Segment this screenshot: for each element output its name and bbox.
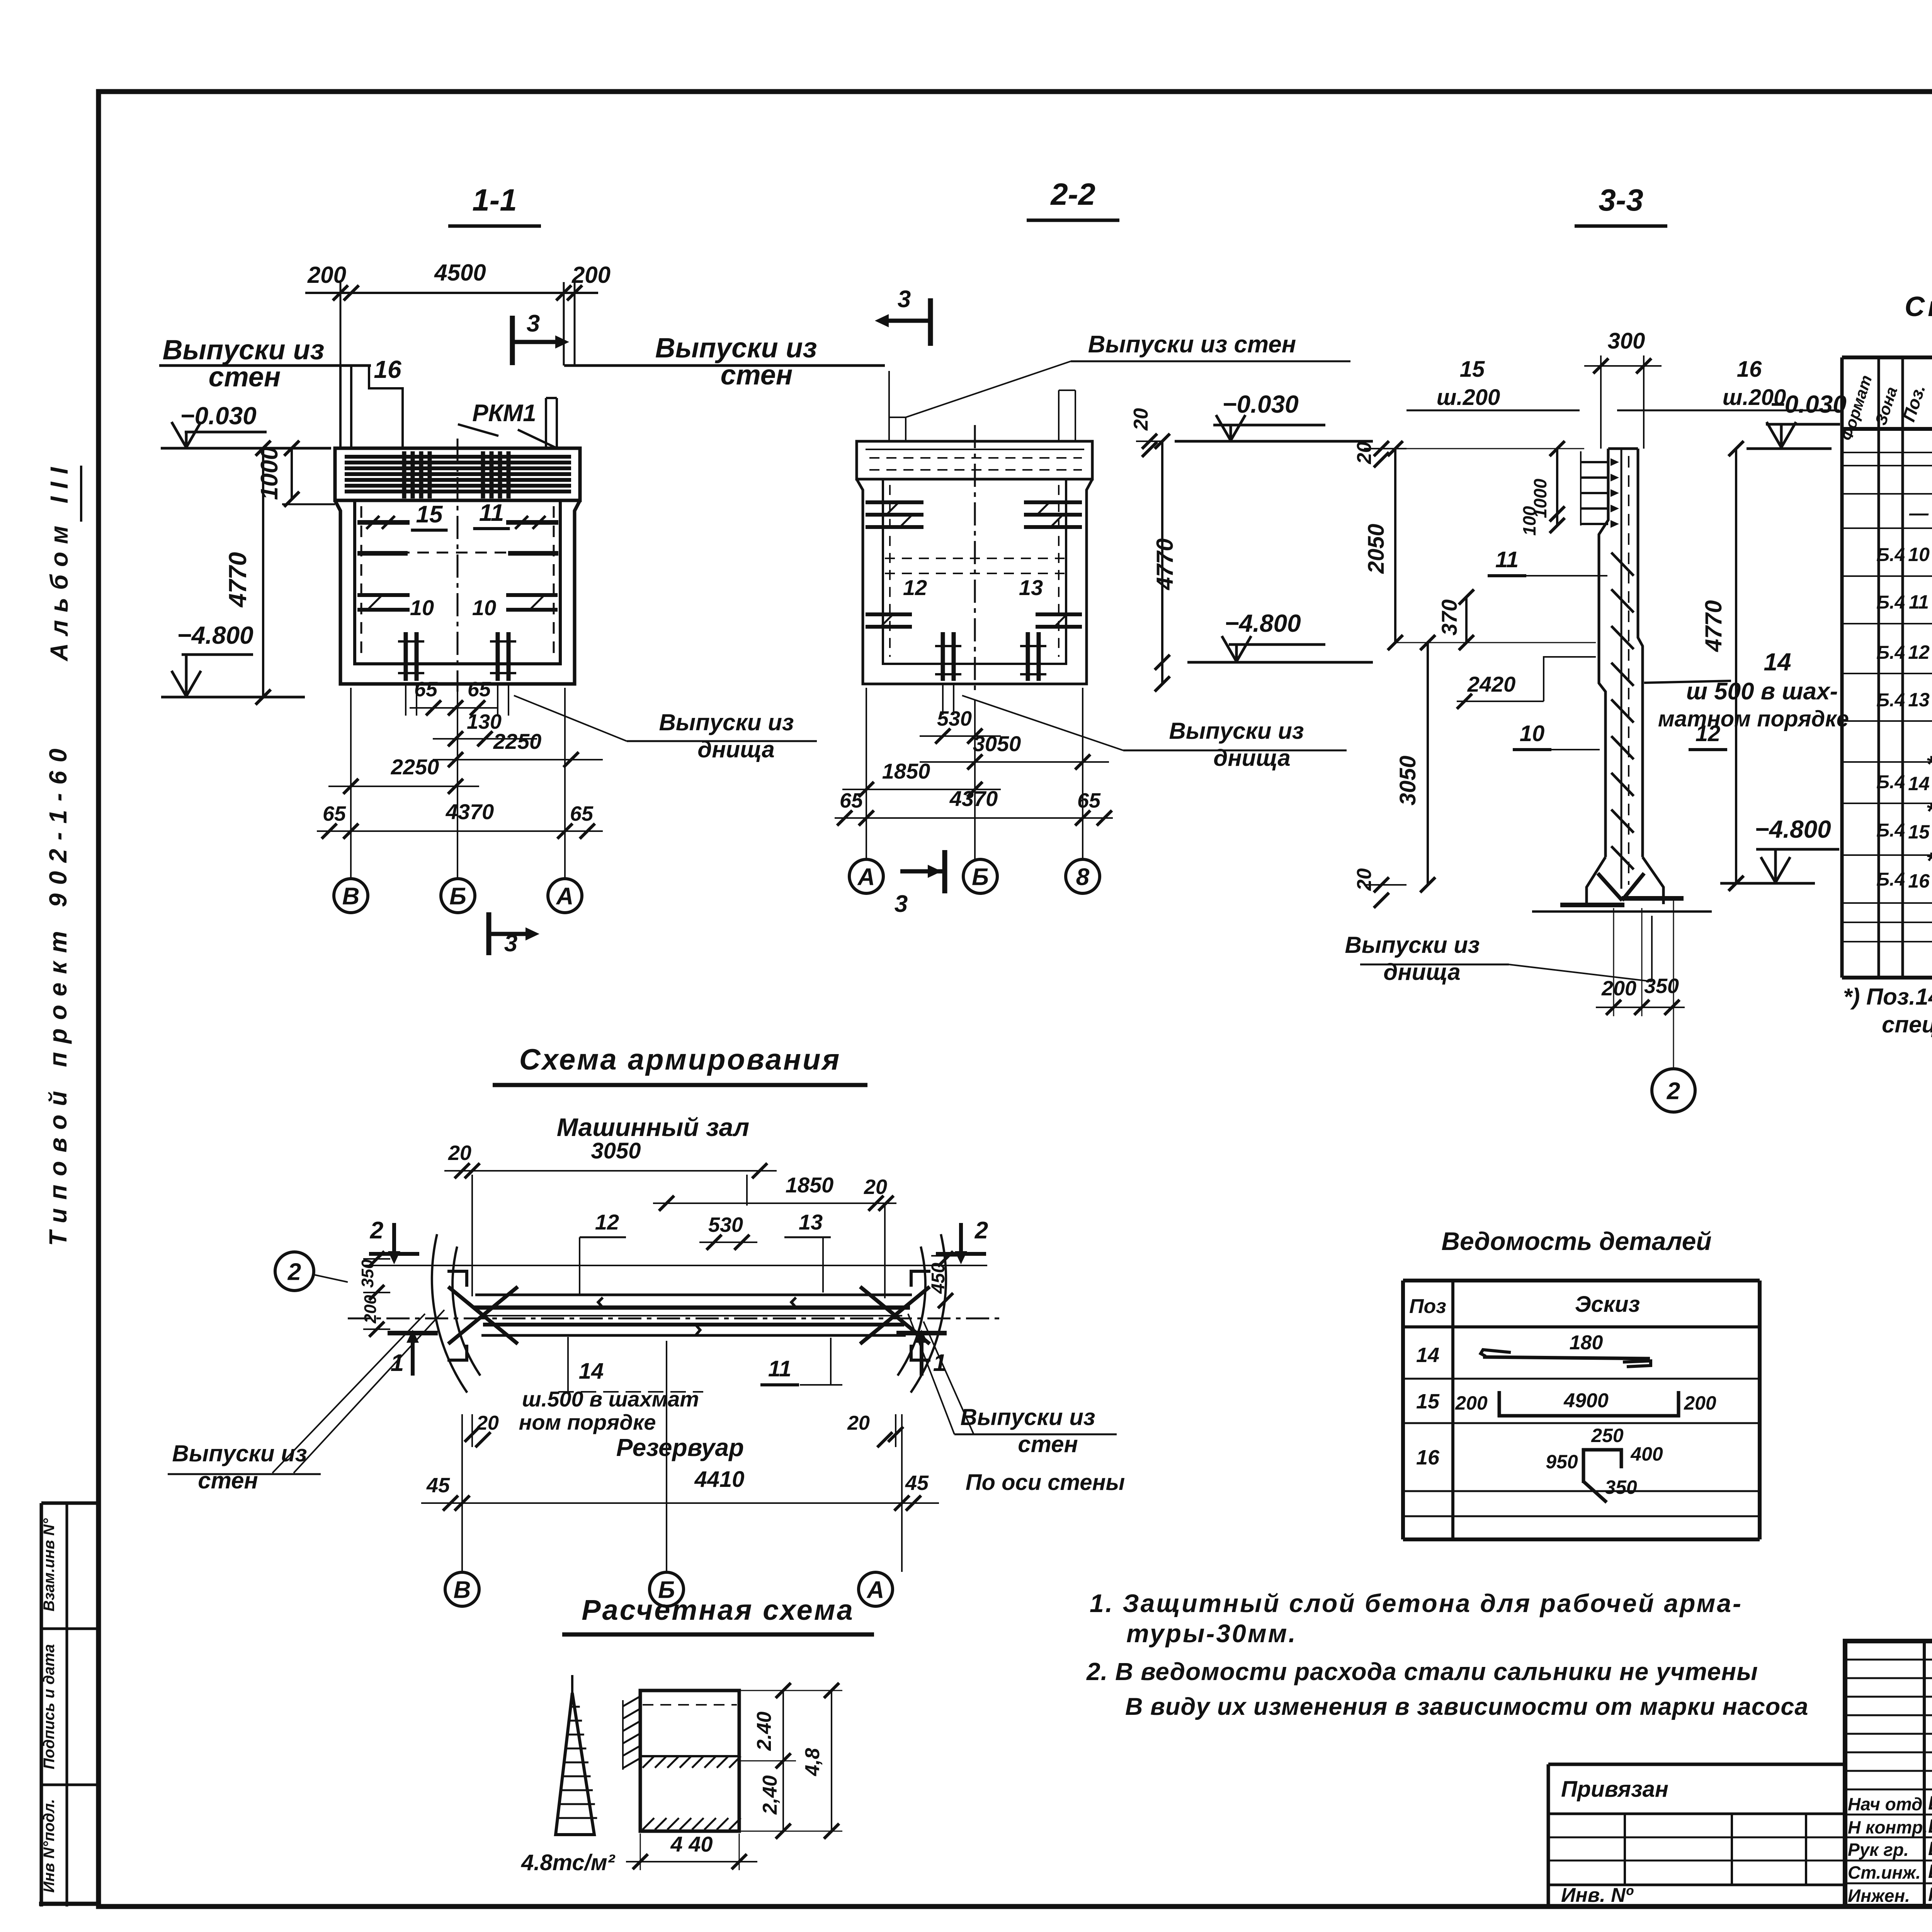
svg-text:По оси стены: По оси стены (966, 1470, 1125, 1495)
svg-text:400: 400 (1630, 1443, 1663, 1465)
svg-text:В: В (454, 1577, 471, 1603)
hatch mid band calc (643, 1756, 654, 1768)
svg-text:Спецификация к стене СТМ2: Спецификация к стене СТМ2 (1905, 291, 1932, 322)
svg-text:Схема армирования: Схема армирования (519, 1043, 841, 1076)
scheme floor edge line between 2-marks (363, 1265, 987, 1266)
svg-text:1850: 1850 (882, 759, 930, 783)
svg-text:14: 14 (1764, 648, 1791, 676)
svg-text:200: 200 (1455, 1392, 1488, 1414)
axis circle A 2-2 (849, 859, 883, 893)
svg-text:Выпуски из стен: Выпуски из стен (1088, 331, 1296, 358)
scheme left end arcs (432, 1234, 467, 1393)
scheme left end cross X rebar (448, 1287, 518, 1344)
svg-text:3: 3 (504, 930, 517, 957)
svg-text:*: * (1926, 848, 1932, 874)
privyazan box (1548, 1763, 1845, 1766)
svg-text:Взам.инв N°: Взам.инв N° (41, 1518, 58, 1612)
svg-text:2: 2 (370, 1217, 383, 1244)
svg-text:14: 14 (1416, 1344, 1439, 1367)
axis extension lines 2-2 (866, 688, 867, 859)
svg-text:2-2: 2-2 (1050, 177, 1095, 211)
svg-text:В: В (342, 883, 360, 910)
axis circle B 2-2 (963, 859, 997, 893)
svg-text:2250: 2250 (493, 729, 542, 753)
svg-text:20: 20 (1130, 408, 1152, 431)
svg-text:12: 12 (1696, 721, 1721, 746)
svg-text:13: 13 (799, 1210, 823, 1234)
svg-text:950: 950 (1546, 1451, 1578, 1473)
svg-text:2,40: 2,40 (759, 1775, 781, 1815)
scheme axis circle B bottom (650, 1572, 684, 1606)
svg-text:4410: 4410 (694, 1467, 744, 1492)
section 1-1 inner wall faces (355, 500, 560, 664)
svg-text:450: 450 (928, 1263, 949, 1294)
svg-text:Альбом III: Альбом III (45, 459, 73, 662)
left strip divider vertical (66, 1503, 68, 1906)
corner rebar bars top left 2-2 (866, 500, 923, 504)
svg-text:2: 2 (287, 1259, 301, 1285)
svg-text:20: 20 (476, 1412, 499, 1434)
svg-text:Инжен.: Инжен. (1848, 1886, 1910, 1906)
scheme small hooks in band (598, 1298, 603, 1308)
svg-text:65: 65 (570, 802, 594, 825)
svg-text:Выпуски из: Выпуски из (1169, 718, 1304, 744)
scheme wall band rebar lines (473, 1306, 910, 1310)
section 2-2 centerline (974, 425, 976, 696)
svg-text:15: 15 (416, 501, 443, 528)
svg-text:Выпуски из: Выпуски из (1345, 932, 1480, 958)
svg-text:−0.030: −0.030 (180, 402, 257, 430)
svg-text:370: 370 (1437, 599, 1461, 635)
top slab vertical hook bars group left (402, 451, 406, 498)
svg-text:А: А (556, 883, 574, 910)
svg-text:Машинный зал: Машинный зал (557, 1113, 749, 1141)
svg-text:2420: 2420 (1467, 672, 1516, 696)
svg-text:3: 3 (898, 286, 911, 313)
scheme section mark 1 left (410, 1373, 415, 1378)
svg-text:Бродская: Бродская (1928, 1838, 1932, 1859)
scheme axis circle A bottom (859, 1572, 893, 1606)
svg-text:2: 2 (1667, 1078, 1680, 1104)
svg-text:11: 11 (1909, 591, 1929, 613)
scheme axis circle 2 (275, 1252, 314, 1291)
svg-text:8: 8 (1076, 864, 1090, 890)
svg-text:11: 11 (479, 500, 504, 526)
svg-text:45: 45 (905, 1471, 929, 1495)
svg-text:Выпуски из: Выпуски из (659, 709, 794, 735)
svg-text:2: 2 (975, 1217, 988, 1244)
svg-text:−0.030: −0.030 (1222, 390, 1299, 418)
section 1-1 centerline (457, 439, 459, 692)
hook triangles on wall 3-3 (1611, 458, 1619, 466)
bottom vertical rebar pair right (496, 632, 500, 681)
scheme axis circle V bottom (445, 1572, 479, 1606)
horizontal rebar mid right (508, 551, 558, 556)
svg-text:−4.800: −4.800 (177, 621, 253, 649)
scheme wall band outline (475, 1294, 912, 1296)
svg-text:туры-30мм.: туры-30мм. (1126, 1619, 1297, 1648)
svg-text:ш.500 в шахмат: ш.500 в шахмат (522, 1387, 699, 1411)
svg-text:4900: 4900 (1563, 1389, 1609, 1412)
wall rectangle calc scheme (640, 1690, 739, 1831)
left strip divider 2 (41, 1784, 99, 1786)
svg-text:65: 65 (1077, 789, 1101, 812)
scheme wall centerline axis (348, 1318, 1005, 1320)
svg-text:3050: 3050 (591, 1138, 641, 1163)
svg-text:13: 13 (1019, 575, 1043, 600)
svg-text:Рук гр.: Рук гр. (1848, 1840, 1909, 1860)
horizontal rebar bars upper left (357, 520, 410, 525)
svg-text:Выпуски из: Выпуски из (961, 1404, 1095, 1430)
section 2-2 walls outline (857, 479, 1092, 684)
svg-text:1000: 1000 (1530, 478, 1550, 518)
svg-text:А: А (857, 864, 875, 890)
wall inner rebar line 3-3 (1621, 449, 1622, 889)
svg-text:Привязан: Привязан (1561, 1777, 1668, 1802)
section 3-3 footing (1587, 857, 1605, 904)
svg-text:3: 3 (527, 310, 540, 337)
svg-text:200: 200 (1684, 1392, 1716, 1414)
bottom vertical rebar pair left (404, 632, 408, 681)
spec table grid (1842, 355, 1932, 359)
svg-text:2250: 2250 (391, 755, 439, 779)
svg-text:12: 12 (595, 1210, 619, 1234)
svg-text:Б: Б (449, 883, 466, 910)
top slab vertical hook bars group right (481, 451, 485, 498)
svg-text:1: 1 (933, 1350, 946, 1376)
svg-text:3: 3 (895, 891, 908, 917)
svg-text:Б.4: Б.4 (1876, 772, 1905, 793)
bottom vertical rebar pair left 2-2 (941, 632, 945, 681)
svg-text:20: 20 (1353, 868, 1376, 891)
svg-text:Инв N°подл.: Инв N°подл. (41, 1799, 58, 1893)
section 2-2 inner dashed verticals (889, 485, 891, 657)
left strip divider 1 (41, 1628, 99, 1630)
svg-text:−0.030: −0.030 (1770, 390, 1847, 418)
svg-text:Инв. Nº: Инв. Nº (1561, 1884, 1634, 1906)
svg-text:Б.4: Б.4 (1876, 643, 1905, 663)
title block name rows (1845, 1814, 1932, 1816)
svg-text:3050: 3050 (973, 731, 1021, 756)
scheme section mark 2 right (959, 1221, 963, 1225)
svg-text:2.40: 2.40 (753, 1711, 776, 1751)
svg-text:РКМ1: РКМ1 (472, 400, 536, 427)
svg-text:20: 20 (448, 1141, 471, 1165)
corner rebar bars lower right 2-2 (1036, 612, 1082, 616)
svg-text:3-3: 3-3 (1599, 183, 1643, 217)
top slab rebar mesh horizontal bars (345, 455, 571, 459)
section flag 3 bottom of 2-2 (942, 850, 947, 893)
corner rebar bars top right 2-2 (1024, 500, 1082, 504)
extension line left wall axis (340, 282, 342, 366)
hatch left side calc (623, 1696, 640, 1706)
svg-text:10: 10 (472, 595, 496, 620)
title block vertical lines left part (1923, 1641, 1926, 1906)
section 2-2 inner wall faces (883, 479, 1066, 664)
svg-text:спецификацию исполнения.: спецификацию исполнения. (1882, 1012, 1932, 1037)
svg-text:*: * (1926, 751, 1932, 777)
ladder bars top left of wall 3-3 (1580, 451, 1582, 526)
svg-text:Эскиз: Эскиз (1575, 1292, 1640, 1317)
svg-text:А: А (866, 1577, 884, 1603)
svg-text:20: 20 (1353, 442, 1376, 464)
svg-text:10: 10 (1520, 721, 1545, 746)
svg-text:2050: 2050 (1364, 524, 1389, 574)
title block thin rows left part (1845, 1659, 1932, 1661)
scheme dim extension verticals (471, 1175, 473, 1296)
svg-text:11: 11 (1495, 547, 1519, 572)
svg-text:14: 14 (579, 1359, 604, 1384)
section 2-2 dashed horizontals (885, 558, 1065, 559)
hatch bottom band calc (643, 1818, 654, 1830)
bottom outlet stubs right (497, 684, 498, 716)
svg-text:1: 1 (391, 1350, 404, 1376)
svg-text:Выпуски из: Выпуски из (172, 1440, 307, 1466)
svg-text:16: 16 (1737, 357, 1762, 382)
horizontal rebar mid left (357, 551, 408, 556)
svg-text:180: 180 (1570, 1332, 1603, 1354)
left margin strip outer line (40, 1503, 43, 1906)
section 1-1 inner dashed lines (361, 506, 362, 659)
frame bottom extension under left strip (39, 1902, 99, 1906)
svg-text:Выпуски из: Выпуски из (655, 333, 817, 364)
svg-text:4370: 4370 (949, 786, 998, 811)
svg-text:*: * (1926, 798, 1932, 824)
svg-text:65: 65 (323, 802, 346, 825)
svg-text:*) Поз.14,15,16 см. ведомость: *) Поз.14,15,16 см. ведомость деталей. О… (1843, 984, 1932, 1010)
svg-text:300: 300 (1608, 328, 1645, 354)
svg-text:200: 200 (1601, 977, 1636, 1000)
svg-text:350: 350 (1605, 1476, 1637, 1498)
svg-text:Б.4: Б.4 (1876, 869, 1905, 890)
svg-text:Ст.инж.: Ст.инж. (1848, 1862, 1921, 1883)
svg-text:4770: 4770 (1152, 538, 1178, 590)
bottom vertical rebar pair right 2-2 (1026, 632, 1030, 681)
left rebar outlet stubs 2-2 (888, 371, 890, 441)
svg-text:1000: 1000 (256, 447, 283, 500)
scheme section mark 2 left (392, 1221, 396, 1225)
svg-text:20: 20 (864, 1175, 887, 1199)
svg-text:Ведомость деталей: Ведомость деталей (1441, 1227, 1711, 1255)
svg-text:Б.4: Б.4 (1876, 592, 1905, 613)
svg-text:4.8тс/м²: 4.8тс/м² (521, 1850, 616, 1875)
scheme right end cross X rebar (860, 1287, 930, 1344)
svg-text:—: — (1909, 502, 1929, 524)
axis circle V (334, 879, 368, 913)
axis circle 2 of 3-3 (1652, 1069, 1695, 1112)
section 1-1 top slab outline (335, 448, 580, 500)
svg-text:15: 15 (1908, 821, 1930, 843)
axis line down to circle 2 of 3-3 (1673, 900, 1674, 1069)
svg-text:45: 45 (426, 1474, 450, 1497)
axis extension lines down to circles 1-1 (350, 688, 352, 879)
svg-text:20: 20 (847, 1412, 870, 1434)
svg-text:11: 11 (768, 1356, 791, 1381)
svg-text:ш.200: ш.200 (1437, 385, 1500, 410)
svg-text:4500: 4500 (434, 260, 486, 286)
svg-text:Б.4: Б.4 (1876, 545, 1905, 565)
svg-text:4 40: 4 40 (670, 1832, 713, 1856)
wall mesh diagonal marks 3-3 (1611, 553, 1634, 576)
axis circle V8 2-2 (1066, 859, 1100, 893)
svg-text:4,8: 4,8 (801, 1748, 824, 1776)
svg-text:13: 13 (1908, 689, 1930, 711)
svg-text:матном порядке: матном порядке (1658, 706, 1849, 731)
load triangle (556, 1693, 594, 1835)
svg-text:65: 65 (414, 678, 438, 701)
svg-text:Выпуски из: Выпуски из (163, 335, 325, 366)
extension line right wall axis (563, 282, 565, 366)
svg-text:65: 65 (840, 789, 863, 812)
rebar outlet stub left above slab (339, 366, 342, 448)
svg-text:−4.800: −4.800 (1755, 815, 1831, 843)
svg-text:3050: 3050 (1395, 755, 1420, 805)
svg-text:530: 530 (937, 707, 972, 730)
svg-text:Н контр.: Н контр. (1848, 1817, 1928, 1837)
svg-text:15: 15 (1460, 357, 1485, 382)
svg-text:Подпись и дата: Подпись и дата (41, 1644, 58, 1769)
section flag 3 top left of 2-2 (928, 298, 933, 346)
section flag 3 top of 1-1 (510, 316, 515, 365)
parts list grid (1403, 1279, 1760, 1282)
svg-text:4770: 4770 (224, 552, 252, 608)
svg-text:Шейко: Шейко (1928, 1792, 1932, 1814)
rebar outlet stub right above slab (545, 398, 547, 448)
svg-text:1. Защитный слой бетона для р: 1. Защитный слой бетона для рабочей арма… (1090, 1589, 1743, 1617)
svg-text:Нач отд.: Нач отд. (1848, 1794, 1927, 1814)
top slab dashed lines 2-2 (869, 457, 1082, 459)
scheme right end arcs (911, 1234, 946, 1393)
svg-text:ном порядке: ном порядке (519, 1410, 656, 1434)
svg-text:В виду их изменения в зависимо: В виду их изменения в зависимости от мар… (1125, 1693, 1808, 1720)
footing bent rebar thick left (1560, 903, 1624, 907)
svg-text:1850: 1850 (786, 1173, 834, 1197)
svg-text:10: 10 (410, 595, 434, 620)
svg-text:Ежалычева: Ежалычева (1928, 1861, 1932, 1882)
right rebar outlet stubs 2-2 (1058, 390, 1060, 441)
svg-text:Никитенко: Никитенко (1928, 1884, 1932, 1905)
svg-text:Б.4: Б.4 (1876, 820, 1905, 841)
scheme section mark 1 right (919, 1373, 924, 1378)
svg-text:250: 250 (1591, 1425, 1624, 1446)
title block outer border (1845, 1641, 1932, 1906)
svg-text:16: 16 (1416, 1446, 1440, 1469)
svg-text:Расчетная схема: Расчетная схема (582, 1594, 854, 1626)
section 2-2 top slab outline (857, 441, 1092, 479)
svg-text:1-1: 1-1 (472, 183, 517, 217)
svg-text:Б: Б (972, 864, 989, 890)
svg-text:530: 530 (708, 1213, 743, 1236)
section 3-3 wall outline (1599, 449, 1608, 857)
corner rebar bars lower left 2-2 (866, 612, 912, 616)
svg-text:Власенко: Власенко (1928, 1815, 1932, 1837)
svg-text:16: 16 (374, 355, 401, 383)
horizontal rebar lower right pair (506, 593, 558, 597)
svg-text:−4.800: −4.800 (1225, 609, 1301, 637)
svg-text:12: 12 (903, 575, 927, 600)
svg-text:4370: 4370 (446, 799, 494, 824)
section 1-1 wall outline below slab (335, 500, 580, 684)
svg-text:днища: днища (1383, 959, 1460, 985)
section flag 3 bottom of 1-1 (486, 912, 492, 955)
bottom outlet stubs 2-2 (942, 684, 944, 715)
svg-text:Резервуар: Резервуар (616, 1434, 744, 1461)
svg-text:12: 12 (1908, 641, 1930, 663)
svg-text:стен: стен (198, 1468, 258, 1493)
svg-text:65: 65 (468, 678, 491, 701)
svg-text:Типовой проект 902-1-60: Типовой проект 902-1-60 (44, 740, 72, 1246)
svg-text:15: 15 (1416, 1390, 1440, 1413)
axis circle B (441, 879, 475, 913)
svg-text:2. В ведомости расхода стали: 2. В ведомости расхода стали сальники не… (1086, 1658, 1758, 1685)
bottom slab inner line (355, 663, 559, 665)
svg-text:10: 10 (1908, 544, 1930, 565)
axis circle A (548, 879, 582, 913)
bottom outlet stubs left (405, 684, 406, 716)
svg-text:днища: днища (1213, 745, 1290, 771)
svg-text:200: 200 (571, 262, 611, 288)
horizontal rebar bars upper right (506, 520, 558, 525)
svg-text:4770: 4770 (1701, 600, 1726, 652)
svg-text:Б.4: Б.4 (1876, 690, 1905, 711)
horizontal rebar lower left pair (357, 593, 410, 597)
svg-text:Поз: Поз (1409, 1295, 1446, 1318)
